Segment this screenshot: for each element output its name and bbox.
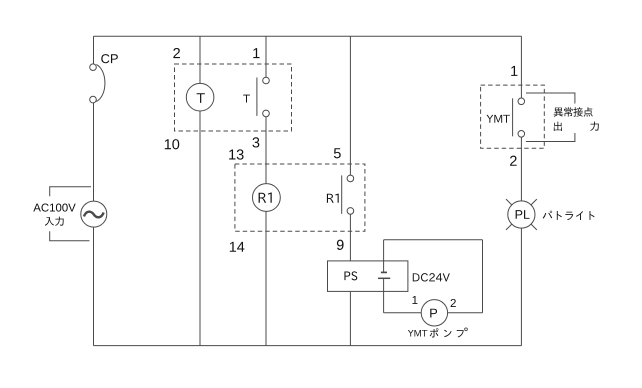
lamp PL: [506, 199, 537, 230]
label R1 relay contact: [327, 194, 339, 203]
wire lamp to bottom rail: [520, 228, 522, 346]
pin 9 relay contact: [337, 240, 344, 250]
label T timer contact: [243, 95, 250, 103]
pump motor P: [421, 300, 447, 326]
label T timer coil: [197, 93, 205, 103]
label ポンプ pump caption: [430, 328, 464, 337]
wire DC24V loop bottom right: [448, 312, 483, 314]
wire DC24V loop right: [482, 240, 484, 313]
pin 3 timer contact: [252, 137, 259, 147]
label P pump motor: [430, 309, 437, 318]
label 出力: [554, 122, 599, 131]
pin 14 relay coil: [230, 242, 245, 252]
pin 1 YMT contact: [511, 66, 517, 76]
contact R1 (pins 5-9): [342, 175, 354, 214]
label R1 relay coil: [259, 193, 272, 203]
wire left column lower: [93, 227, 95, 346]
dashed box timer unit T: [175, 64, 292, 131]
label YMT of pump caption: [408, 330, 428, 337]
wire DC24V loop bottom left: [384, 312, 422, 314]
battery DC24V: [378, 272, 390, 278]
pin 1 pump: [412, 296, 417, 304]
wire DC24V loop left upper: [383, 240, 385, 272]
label bracket AC100V input: [50, 187, 91, 241]
pin 2 timer coil: [173, 48, 180, 58]
wire bottom rail: [94, 345, 522, 347]
wire timer coil column lower: [199, 111, 201, 346]
wire DC24V loop left lower: [383, 279, 385, 313]
bracket abnormal-contact output terminals: [526, 93, 575, 142]
label PL lamp: [516, 210, 530, 219]
wire timer contact column upper: [265, 36, 267, 77]
node output-label background mask: [550, 104, 602, 134]
dashed box relay unit R1: [235, 164, 365, 231]
power supply PS box: [328, 261, 408, 292]
label YMT contact: [486, 115, 509, 123]
label CP: [101, 54, 118, 63]
pin 10 timer coil: [165, 139, 179, 149]
timer coil T: [186, 83, 214, 111]
pin 13 relay coil: [229, 149, 243, 159]
label PS power supply: [344, 271, 357, 280]
label 異常接点: [554, 107, 593, 117]
wire YMT contact to lamp: [520, 137, 522, 201]
value DC24V: [413, 273, 450, 281]
wire power supply to bottom rail: [349, 291, 351, 345]
label 入力: [45, 217, 64, 226]
pin 1 timer contact: [253, 48, 259, 58]
wire left column middle: [93, 103, 95, 201]
label AC100V: [33, 204, 75, 212]
label パトライト: [543, 211, 595, 221]
wire relay contact column upper: [349, 36, 351, 175]
wire top rail: [94, 35, 522, 37]
contact T (pins 1-3): [257, 77, 269, 117]
wire timer coil column upper: [199, 36, 201, 83]
wire relay coil column lower: [265, 211, 267, 345]
pin 5 relay contact: [334, 148, 341, 158]
pin 2 YMT contact: [510, 156, 517, 166]
dashed box YMT output unit: [481, 85, 545, 148]
wire timer contact to relay coil: [265, 117, 267, 184]
contact YMT (pins 1-2): [513, 98, 525, 137]
wire YMT column upper: [520, 36, 522, 98]
pin 2 pump: [451, 299, 456, 307]
relay coil R1: [253, 184, 281, 212]
handakuten of プ in pump caption: [465, 328, 468, 331]
wire left column upper: [93, 36, 95, 64]
wire relay contact to power supply: [349, 214, 351, 261]
wire DC24V loop top: [384, 239, 483, 241]
breaker CP: [90, 64, 105, 103]
AC source: [81, 201, 107, 227]
